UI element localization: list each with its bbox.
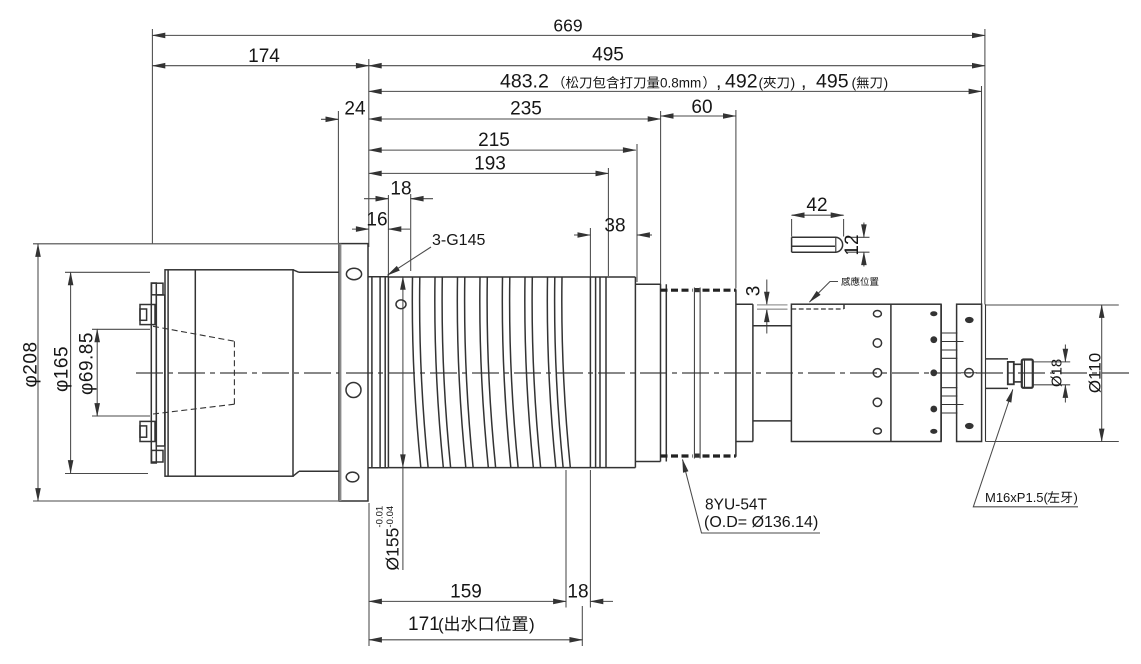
svg-text:Ø155: Ø155: [383, 528, 403, 571]
svg-text:): ): [884, 75, 889, 91]
svg-text:235: 235: [510, 99, 542, 120]
svg-text:(: (: [438, 615, 444, 634]
svg-text:Ø18: Ø18: [1049, 359, 1066, 387]
svg-text:18: 18: [390, 179, 411, 200]
svg-text:3: 3: [744, 286, 765, 297]
svg-text:159: 159: [450, 582, 482, 603]
svg-text:): ): [1074, 490, 1078, 505]
svg-text:(: (: [759, 75, 764, 91]
svg-text:0.8mm: 0.8mm: [660, 76, 701, 91]
svg-text:): ): [791, 75, 796, 91]
svg-text:38: 38: [604, 216, 625, 237]
svg-text:171: 171: [408, 614, 440, 635]
svg-text:-0.04: -0.04: [385, 506, 396, 528]
svg-text:495: 495: [816, 71, 849, 93]
svg-text:12: 12: [842, 234, 863, 255]
svg-text:42: 42: [806, 195, 827, 216]
svg-text:24: 24: [344, 99, 366, 120]
svg-text:φ208: φ208: [21, 341, 42, 387]
svg-text:,: ,: [801, 71, 806, 93]
svg-text:φ165: φ165: [52, 346, 73, 392]
svg-text:φ69.85: φ69.85: [77, 332, 98, 395]
svg-text:495: 495: [592, 45, 624, 66]
svg-text:(: (: [852, 75, 857, 91]
svg-text:60: 60: [691, 97, 712, 118]
svg-text:M16xP1.5(: M16xP1.5(: [985, 490, 1049, 505]
svg-text:193: 193: [474, 154, 506, 175]
svg-text:-0.01: -0.01: [375, 506, 386, 528]
svg-text:483.2: 483.2: [500, 71, 549, 93]
svg-text:(O.D= Ø136.14): (O.D= Ø136.14): [704, 514, 818, 531]
svg-text:669: 669: [553, 16, 582, 36]
svg-text:215: 215: [478, 130, 510, 151]
svg-text:16: 16: [366, 210, 387, 231]
svg-text:,: ,: [716, 71, 721, 93]
svg-text:8YU-54T: 8YU-54T: [705, 497, 768, 514]
svg-text:3-G145: 3-G145: [432, 232, 485, 249]
svg-text:492: 492: [725, 71, 758, 93]
svg-text:Ø110: Ø110: [1086, 353, 1105, 393]
svg-text:): ): [529, 615, 535, 634]
svg-text:18: 18: [567, 582, 588, 603]
svg-text:174: 174: [248, 46, 280, 67]
